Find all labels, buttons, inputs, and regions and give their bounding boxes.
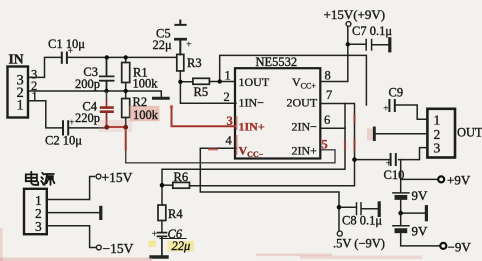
op-amp U1 NE5532 [235,68,320,158]
ground (C7) [388,39,391,51]
capacitor C7 [348,40,388,51]
svg-text:6: 6 [324,113,330,127]
svg-text:22μ: 22μ [172,239,191,253]
svg-text:5: 5 [322,137,328,151]
wire power pin2 to ground [47,212,99,214]
resistor R3 [177,54,184,81]
svg-text:OUT: OUT [457,126,482,140]
wire power pin1 to +15V [47,177,95,200]
svg-text:3: 3 [227,114,233,128]
svg-text:2IN−: 2IN− [292,120,318,134]
svg-text:2: 2 [434,127,441,142]
wire IN pin1 to C2 [28,101,107,128]
node J battery mid [398,211,403,216]
wire OUT pin3 to C10 [399,148,428,160]
node C y91 C3C4 [104,89,108,93]
svg-text:+15V(+9V): +15V(+9V) [324,7,386,22]
svg-text:−9V: −9V [448,239,472,254]
wire pin6 stub [320,127,345,129]
resistor R4 [158,185,166,232]
node D y91 R1R2 [124,89,128,93]
node F R5 pin1 [218,79,222,83]
wire IN pin2 ground line [28,91,161,97]
red smudge OUT ground [367,129,373,141]
red wire pin3 1IN+ [172,107,237,126]
svg-text:4: 4 [226,134,233,148]
svg-text:+15V: +15V [102,170,133,185]
terminal -9V [440,243,446,249]
red highlight: capacitor C4 [100,91,114,127]
OUT pins 1 2 3 [434,113,441,156]
node E R3R5 [178,80,182,84]
wire power pin3 to -15V [47,226,96,248]
svg-text:R6: R6 [174,170,189,184]
red streaks bottom [0,258,152,261]
label power (dian yuan glyphs) [26,172,55,185]
svg-text:−15V: −15V [103,241,134,256]
svg-text:+9V: +9V [447,172,471,187]
svg-text:+: + [383,104,389,115]
capacitor C5 [175,21,185,55]
svg-text:3: 3 [434,141,441,156]
svg-text:+: + [152,229,158,240]
capacitor C6 [158,233,187,256]
ground (C6) [151,255,167,258]
node G +15V pin8 [346,42,350,46]
svg-text:2IN+: 2IN+ [292,144,318,158]
svg-text:1OUT: 1OUT [239,75,270,89]
svg-text:22μ: 22μ [153,38,173,52]
svg-text:R3: R3 [187,56,202,70]
resistor R5 [180,78,219,84]
IN external pins 3 2 1 [31,68,38,104]
svg-text:220p: 220p [75,111,100,125]
battery B2 9V [393,213,440,246]
svg-text:8: 8 [325,68,331,82]
terminal -15V C8 [337,231,342,236]
red wire node C4R2 [107,127,126,151]
red marks 2OUT vertical [345,114,355,151]
capacitor C10 [355,154,396,165]
svg-text:1: 1 [225,69,231,83]
wire R4R6 node to pin6 riser [162,104,345,186]
connector IN [8,67,29,118]
capacitor C8 [339,203,378,215]
wire pin1 stub [220,81,235,83]
svg-text:C2 10μ: C2 10μ [45,134,82,148]
svg-text:1IN−: 1IN− [239,96,265,110]
svg-text:C8 0.1μ: C8 0.1μ [342,214,382,228]
capacitor C2 [63,121,68,134]
red highlight R2 100k [130,106,160,122]
ground (input line) [154,97,169,100]
ground (power pin2) [99,207,102,218]
node A y57 C3 [105,55,109,59]
connector OUT [427,109,455,158]
svg-text:+: + [69,118,75,129]
wire pin2 loop [180,82,236,104]
capacitor C3 [100,57,114,91]
svg-text:+: + [68,46,74,57]
svg-text:1: 1 [434,113,441,128]
IC pin labels [239,75,318,159]
svg-text:100k: 100k [133,77,159,91]
svg-text:7: 7 [326,88,332,102]
svg-text:R2: R2 [133,95,148,109]
svg-text:+: + [186,40,192,51]
ground (C8) [378,203,381,216]
terminal +15V top [346,22,351,27]
svg-text:C10: C10 [384,168,405,182]
wire pin7 2OUT down to C10 and R6 [190,104,355,186]
capacitor C1 [62,53,67,63]
node I R6R4 [160,183,165,188]
battery B1 9V [393,179,409,213]
red marks IC left edge [236,116,238,155]
svg-text:C9: C9 [389,86,404,100]
svg-text:IN: IN [9,52,24,67]
wire +9V tap [401,160,438,180]
wire under-IC line R2C4 to pin5 [126,150,335,163]
wire OUT pin2 to ground [376,133,427,135]
svg-text:1: 1 [32,90,38,104]
red marks pin4 stub [208,148,218,150]
svg-text:1: 1 [17,98,24,114]
svg-text:NE5532: NE5532 [256,55,298,69]
wire input top line [28,57,177,77]
svg-text:1IN+: 1IN+ [239,120,265,134]
svg-text:+: + [386,159,392,170]
wire pin8 to +15V [320,27,348,82]
svg-text:R4: R4 [168,207,183,221]
terminal +15V power [96,174,101,179]
wire 1OUT feedback to C9 [220,55,367,105]
svg-text:100k: 100k [133,108,159,122]
capacitor C9 [389,100,427,119]
plus signs [68,40,392,241]
node B y57 R1 [124,55,128,59]
svg-text:3: 3 [35,219,42,234]
wire -15V terminal [338,207,340,231]
power pins 1 2 3 [35,193,42,234]
node K C8 [337,205,342,210]
terminal +9V [438,176,444,182]
resistor R2 [122,91,130,127]
connector power [24,189,47,234]
ground (battery mid) [401,207,427,220]
svg-text:2OUT: 2OUT [287,96,318,110]
svg-text:9V: 9V [412,223,429,238]
resistor R1 [122,57,130,91]
yellow highlight C6 22u [168,241,195,252]
node H 2OUT C10 [352,157,357,162]
terminal -15V power [96,245,101,250]
IN internal pins 3 2 1 [17,73,24,114]
resistor R6 [162,182,190,188]
wire pin4 Vcc- to C8 [200,148,339,207]
ground (OUT pin2) [373,128,376,140]
svg-text:C7 0.1μ: C7 0.1μ [352,24,392,38]
svg-text:R5: R5 [194,85,209,99]
svg-text:2: 2 [224,90,230,104]
svg-text:9V: 9V [412,188,429,203]
svg-text:200p: 200p [75,77,100,91]
svg-text:.5V (−9V): .5V (−9V) [333,237,385,251]
